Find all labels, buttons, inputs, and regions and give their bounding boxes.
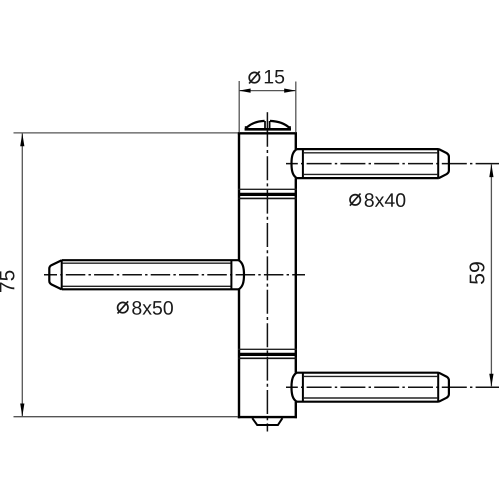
knuckle joint upper: [238, 189, 297, 198]
knuckle joint lower: [238, 349, 297, 358]
label 8x50 diameter symbol: [118, 301, 129, 313]
hinge body outline: [238, 132, 297, 418]
dim 15 diameter symbol: [249, 71, 260, 83]
label 8x40 diameter symbol: [350, 194, 361, 206]
label 8x50 text: [132, 301, 173, 315]
dim 15 extension lines: [238, 81, 240, 133]
bottom pin centerline: [286, 386, 499, 388]
body vertical centerline: [266, 112, 268, 131]
dim 59 line: [490, 165, 492, 387]
top cap dome: [245, 121, 291, 130]
dim 59 text: [469, 262, 484, 284]
label 8x40 text: [365, 193, 406, 207]
bottom tab: [252, 418, 282, 425]
dim 15 text: [265, 70, 284, 84]
dim 59 arrows: [489, 164, 493, 177]
top pin centerline: [286, 163, 499, 165]
bottom-right pin: [292, 372, 449, 402]
left pin (8x50): [49, 260, 244, 290]
top-right pin (8x40): [292, 149, 449, 179]
dim 75 extension lines: [14, 132, 239, 134]
dim 15 line: [239, 90, 296, 92]
dim 75 arrows: [20, 133, 24, 146]
dim 15 arrows: [239, 89, 251, 93]
dim 75 line: [21, 134, 23, 417]
dim 75 text: [0, 271, 15, 292]
left pin centerline: [44, 274, 305, 276]
